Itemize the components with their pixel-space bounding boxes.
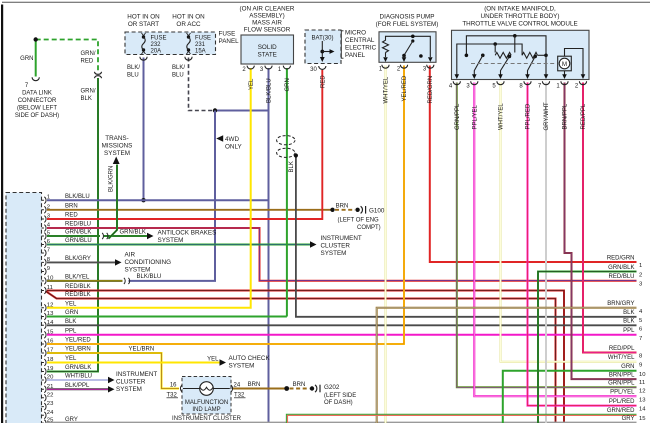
svg-text:RED/BLU: RED/BLU	[608, 274, 634, 280]
svg-text:231: 231	[195, 42, 206, 48]
svg-text:GRN/BLK: GRN/BLK	[65, 365, 91, 371]
svg-text:SYSTEM: SYSTEM	[321, 250, 347, 257]
svg-text:PANEL: PANEL	[345, 52, 366, 59]
svg-text:UNDER THROTTLE BODY): UNDER THROTTLE BODY)	[481, 13, 560, 20]
node splice dot BRN	[330, 208, 334, 212]
svg-text:5: 5	[639, 318, 643, 324]
svg-text:BLK/YEL: BLK/YEL	[65, 275, 90, 281]
arrow to antilock brakes system	[147, 233, 154, 239]
svg-text:YEL/RED: YEL/RED	[402, 75, 408, 101]
svg-text:10: 10	[639, 372, 646, 378]
svg-text:15: 15	[639, 416, 646, 422]
connector cup under fuse 232	[140, 57, 147, 60]
wire RED/BLK pin 11 row to bottom right	[47, 291, 564, 423]
node tap dot	[294, 153, 298, 157]
svg-text:BLK/BLU: BLK/BLU	[137, 274, 162, 280]
svg-text:OR START: OR START	[128, 21, 159, 28]
svg-text:GRN: GRN	[65, 310, 78, 316]
svg-text:GRY: GRY	[65, 417, 78, 423]
label lamp pin 24 T32	[234, 383, 246, 399]
svg-text:4: 4	[449, 84, 453, 90]
svg-text:18: 18	[47, 357, 54, 363]
fuse panel box	[125, 32, 216, 55]
svg-text:PPL: PPL	[623, 328, 635, 334]
svg-text:3: 3	[423, 67, 427, 73]
wire BLK/BLU dashed from fuse 231	[189, 58, 213, 111]
wire BRN pin 2 row	[47, 209, 332, 211]
lamp left bracket pin 16	[180, 385, 182, 392]
wire WHT/YEL module pin 5 to right pin 9	[501, 83, 637, 362]
svg-text:8: 8	[639, 354, 643, 360]
svg-text:SYSTEM: SYSTEM	[116, 386, 142, 393]
arrow pin20 instrument cluster	[108, 377, 115, 383]
svg-text:20A: 20A	[151, 49, 162, 55]
svg-text:RED/PPL: RED/PPL	[609, 346, 635, 352]
svg-text:9: 9	[639, 363, 642, 369]
svg-text:PPL/RED: PPL/RED	[526, 103, 532, 129]
connector cups throttle module pins	[453, 81, 586, 84]
svg-text:MASS AIR: MASS AIR	[252, 20, 282, 27]
ground symbol G202	[310, 385, 320, 393]
wire YEL pin 18 to auto check	[47, 362, 220, 364]
svg-text:BRN: BRN	[336, 203, 349, 209]
svg-text:RED: RED	[321, 75, 327, 88]
wire RED/BLK second row	[46, 291, 556, 423]
fuse F232 symbol	[142, 33, 146, 54]
ground symbol G100	[355, 206, 365, 214]
wire BLK/YEL pin 10	[47, 280, 123, 282]
svg-text:SOLID: SOLID	[258, 44, 277, 51]
svg-text:M: M	[562, 61, 567, 68]
label fuse panel titles	[127, 14, 205, 29]
svg-text:15A: 15A	[195, 49, 206, 55]
wire YEL/BRN pin 17 to malfunction lamp	[47, 353, 179, 389]
svg-text:SYSTEM: SYSTEM	[104, 150, 130, 157]
svg-text:RED/PPL: RED/PPL	[581, 103, 587, 129]
svg-text:11: 11	[47, 285, 53, 291]
svg-text:19: 19	[47, 366, 54, 372]
wire PPL/YEL module pin 3 to right pin 13	[474, 83, 636, 397]
node junction dot 4WD	[213, 108, 217, 112]
right connector wire labels	[607, 255, 635, 421]
svg-text:10: 10	[47, 275, 54, 281]
svg-text:GRN/BLU: GRN/BLU	[65, 238, 92, 244]
svg-text:24: 24	[234, 383, 241, 389]
svg-text:AUTO CHECK: AUTO CHECK	[229, 355, 271, 362]
wire YEL/RED pin 16 to diagnosis pump pin 2	[47, 66, 404, 345]
svg-text:BLK: BLK	[623, 319, 634, 325]
wire WHT/YEL diagnosis pump pin 1 to bottom	[385, 66, 387, 423]
svg-text:GRN: GRN	[20, 56, 33, 62]
svg-text:GRY/WHT: GRY/WHT	[544, 102, 550, 131]
svg-text:SYSTEM: SYSTEM	[158, 237, 184, 244]
svg-text:ANTILOCK BRAKES: ANTILOCK BRAKES	[158, 230, 217, 237]
svg-text:232: 232	[151, 42, 162, 48]
wire BLK/BLU link dot to MAF	[215, 110, 269, 112]
svg-text:2: 2	[242, 67, 246, 73]
svg-text:GRN/BLK: GRN/BLK	[120, 230, 146, 236]
left connector pin stubs	[42, 197, 47, 423]
svg-text:FLOW SENSOR: FLOW SENSOR	[244, 27, 291, 34]
svg-text:CENTRAL: CENTRAL	[345, 37, 375, 44]
wire BLK/GRY pin 8	[47, 261, 115, 263]
svg-text:MALFUNCTION: MALFUNCTION	[185, 400, 228, 406]
svg-text:MICRO: MICRO	[345, 30, 366, 37]
wire RED pin 3 row to BAT(30)	[47, 70, 322, 219]
svg-text:12: 12	[47, 302, 54, 308]
svg-text:FUSE: FUSE	[195, 36, 211, 42]
diagnosis pump box	[379, 32, 436, 63]
connector cup data link pin 7	[32, 77, 39, 80]
malfunction indicator lamp box	[182, 377, 231, 415]
svg-text:YEL/BRN: YEL/BRN	[65, 347, 91, 353]
wire GRN/BLK from bottom edge to right pin 2	[538, 272, 637, 423]
svg-text:RED/GRN: RED/GRN	[607, 255, 635, 261]
svg-text:INSTRUMENT: INSTRUMENT	[116, 371, 157, 378]
right connector pin numbers	[639, 263, 646, 423]
svg-text:(BELOW LEFT: (BELOW LEFT	[17, 106, 57, 112]
svg-text:(LEFT SIDE: (LEFT SIDE	[324, 393, 356, 399]
svg-text:BLK/GRY: BLK/GRY	[65, 256, 91, 262]
left connector wire labels	[65, 194, 92, 423]
wire BRN/GRY from bottom edge to right pin 4	[377, 308, 637, 423]
svg-text:CONNECTOR: CONNECTOR	[18, 98, 57, 104]
node junction dot at data link	[34, 37, 38, 41]
svg-text:16: 16	[47, 339, 54, 345]
wire YEL pin 12 to MAF pin 2	[47, 68, 251, 308]
svg-text:SYSTEM: SYSTEM	[125, 267, 151, 274]
svg-text:BLU: BLU	[127, 73, 139, 79]
wire GRN/BLU pin 6 row	[47, 244, 310, 246]
wire BRN/PPL module pin 1 to right pin 11	[565, 83, 637, 380]
wire GRY/WHT module pin 7 to bottom	[545, 83, 547, 423]
svg-text:WHT/YEL: WHT/YEL	[499, 103, 505, 130]
svg-text:RED/BLK: RED/BLK	[65, 292, 91, 298]
svg-text:17: 17	[47, 348, 54, 354]
svg-text:COMPT): COMPT)	[357, 225, 381, 231]
svg-text:GRN: GRN	[285, 78, 291, 91]
svg-text:STATE: STATE	[258, 52, 277, 59]
label MAF sensor title	[240, 6, 295, 59]
label fuse 232 values	[151, 36, 212, 55]
svg-text:15: 15	[47, 329, 54, 335]
dashed inline connector on MAF GRN wire	[277, 136, 295, 158]
svg-text:GRN/: GRN/	[81, 51, 96, 57]
arrow pin6 instrument cluster	[310, 241, 317, 247]
wire BLK pin 14 full row to right pin 6	[47, 324, 637, 326]
svg-text:2: 2	[47, 204, 50, 210]
svg-text:WHT/YEL: WHT/YEL	[608, 355, 635, 361]
wire BLK/BLU pin 1 row	[47, 199, 269, 201]
svg-text:CLUSTER: CLUSTER	[321, 243, 351, 250]
wire GRY bottom row	[47, 421, 637, 423]
svg-text:23: 23	[47, 401, 54, 407]
wire GRN data link vertical	[35, 40, 37, 77]
svg-text:RED/GRN: RED/GRN	[428, 76, 434, 104]
svg-text:7: 7	[47, 248, 50, 254]
svg-text:1: 1	[556, 84, 560, 90]
svg-text:BLK/BLU: BLK/BLU	[267, 78, 273, 103]
svg-text:14: 14	[639, 407, 646, 413]
wire GRN/BLK from inline connector down to pin 19 row	[47, 78, 98, 372]
svg-text:8: 8	[519, 84, 523, 90]
svg-text:2: 2	[639, 273, 642, 279]
svg-text:WHT/YEL: WHT/YEL	[384, 76, 390, 103]
svg-text:IND LAMP: IND LAMP	[192, 407, 220, 413]
svg-text:1: 1	[639, 263, 642, 269]
svg-text:(FOR FUEL SYSTEM): (FOR FUEL SYSTEM)	[376, 21, 439, 28]
svg-text:BRN: BRN	[65, 204, 78, 210]
wire RED/BLU pin 4 to right pin 3	[47, 228, 637, 281]
wire PPL/RED module pin 8 to right pin 14	[528, 83, 637, 406]
arrow auto check system	[220, 359, 227, 365]
svg-text:(ON AIR CLEANER: (ON AIR CLEANER	[240, 6, 295, 13]
label GRN/RED	[81, 51, 186, 102]
svg-text:G100: G100	[369, 207, 385, 214]
connector cup under fuse 231	[185, 57, 192, 60]
svg-text:HOT IN ON: HOT IN ON	[172, 14, 205, 21]
svg-text:BLK: BLK	[289, 161, 295, 172]
svg-text:RED/BLU: RED/BLU	[65, 222, 91, 228]
wire BRN dashed to G202	[290, 388, 310, 390]
svg-text:PPL/YEL: PPL/YEL	[473, 104, 479, 129]
label transmissions system	[102, 135, 133, 157]
wire GRN pin 13 to MAF pin 1	[47, 316, 287, 318]
throttle valve control module box	[452, 30, 590, 79]
svg-text:GRN/RED: GRN/RED	[607, 408, 635, 414]
svg-text:BRN: BRN	[248, 382, 261, 388]
svg-text:YEL/BRN: YEL/BRN	[129, 347, 155, 353]
wire BLK/GRN branch up to transmissions arrow	[109, 165, 118, 239]
label throttle module title	[462, 6, 577, 28]
wire BLK tap from MAF connector to right pin 5	[296, 156, 637, 317]
svg-text:SYSTEM: SYSTEM	[229, 363, 255, 370]
svg-text:OF DASH): OF DASH)	[324, 400, 353, 406]
page top border line	[2, 1, 650, 3]
left 25-pin connector box (dashed, cut at bottom)	[6, 193, 42, 423]
svg-text:(ON INTAKE MANIFOLD,: (ON INTAKE MANIFOLD,	[484, 6, 556, 13]
svg-text:FUSE: FUSE	[219, 31, 236, 38]
svg-text:ELECTRIC: ELECTRIC	[345, 45, 377, 52]
arrow 4WD ONLY pointing left	[216, 135, 223, 141]
label MAF pin numbers	[242, 67, 579, 90]
micro central panel bracket	[341, 31, 343, 58]
svg-text:PANEL: PANEL	[219, 38, 240, 45]
svg-text:4WD: 4WD	[225, 136, 239, 143]
svg-text:13: 13	[47, 311, 54, 317]
svg-text:12: 12	[639, 388, 646, 394]
svg-text:BLK/PPL: BLK/PPL	[65, 383, 90, 389]
micro central electric panel BAT(30) box	[305, 30, 341, 64]
wire GRN/BLK pin 5 row	[47, 235, 100, 237]
mass air flow sensor box	[241, 35, 294, 64]
connector cups diagnosis pump pins	[382, 65, 434, 68]
svg-text:YEL: YEL	[65, 302, 77, 308]
svg-text:22: 22	[47, 392, 54, 398]
svg-text:INSTRUMENT: INSTRUMENT	[321, 235, 362, 242]
svg-text:BLK/BLU: BLK/BLU	[65, 194, 90, 200]
svg-text:2: 2	[575, 84, 579, 90]
arrow pin21 instrument cluster	[108, 386, 115, 392]
svg-text:ONLY: ONLY	[225, 144, 242, 151]
svg-text:1: 1	[379, 67, 383, 73]
connector cups MAF pins 2 3 1	[247, 66, 290, 69]
svg-text:3: 3	[260, 67, 264, 73]
svg-text:BLK/GRN: BLK/GRN	[109, 166, 115, 192]
wire GRN/PPL module pin 4 to right pin 12	[457, 83, 637, 388]
svg-text:BRN/PPL: BRN/PPL	[563, 103, 569, 129]
arrow up transmissions system	[113, 157, 120, 165]
inline connector symbol pin 5 wire	[102, 233, 108, 239]
svg-text:1: 1	[47, 195, 50, 201]
inline connector symbol pin 10 wire	[124, 278, 130, 284]
wire PPL pin 15 full row to right pin 7	[47, 334, 637, 336]
svg-text:16: 16	[170, 383, 177, 389]
svg-text:WHT/BLU: WHT/BLU	[65, 374, 92, 380]
svg-text:3: 3	[466, 84, 470, 90]
svg-text:PPL: PPL	[65, 329, 77, 335]
label lamp pin 16 T32	[167, 383, 178, 399]
svg-text:1: 1	[278, 67, 282, 73]
wire BLK/BLU from fuse 232	[143, 58, 145, 201]
wire RED/GRN diagnosis pump pin 3 to right pin 1	[430, 66, 637, 263]
malfunction indicator lamp symbol	[183, 382, 230, 396]
svg-text:5: 5	[492, 84, 496, 90]
label rotated YEL MAF	[109, 75, 588, 192]
svg-text:BLK/: BLK/	[127, 65, 140, 71]
svg-text:HOT IN ON: HOT IN ON	[127, 14, 160, 21]
wire WHT/BLU pin 20	[47, 379, 108, 381]
label malfunction ind lamp	[172, 400, 242, 422]
svg-text:AIR: AIR	[125, 252, 136, 259]
throttle module internal circuit	[455, 34, 586, 79]
svg-text:25: 25	[47, 418, 54, 423]
svg-text:OR ACC: OR ACC	[176, 21, 201, 28]
svg-text:BAT(30): BAT(30)	[312, 36, 334, 42]
svg-text:BLK/: BLK/	[172, 65, 185, 71]
wire GRN from bottom edge to right pin 10	[503, 371, 637, 423]
connector cup BAT(30) pin 30	[319, 66, 326, 69]
svg-text:GRN/: GRN/	[81, 89, 96, 95]
node splice dot BRN G202	[284, 386, 289, 391]
svg-text:CLUSTER: CLUSTER	[116, 379, 146, 386]
svg-text:7: 7	[639, 336, 642, 342]
svg-text:2: 2	[397, 67, 401, 73]
svg-text:7: 7	[25, 83, 29, 89]
svg-text:RED: RED	[65, 213, 78, 219]
svg-text:CONDITIONING: CONDITIONING	[125, 259, 172, 266]
wire GRN/RED from bottom edge to right pin 15	[286, 414, 636, 423]
wire BLK/BLU MAF pin3 long vertical to bottom	[268, 68, 270, 423]
svg-text:PPL/YEL: PPL/YEL	[610, 390, 635, 396]
svg-text:YEL: YEL	[207, 357, 219, 363]
arrow pin8 air conditioning	[115, 259, 122, 265]
svg-text:30: 30	[310, 67, 317, 73]
svg-text:BRN: BRN	[293, 382, 306, 388]
svg-text:GRN/BLK: GRN/BLK	[65, 230, 91, 236]
svg-text:G202: G202	[324, 384, 340, 391]
svg-text:INSTRUMENT CLUSTER: INSTRUMENT CLUSTER	[172, 416, 242, 422]
lamp right bracket pin 24	[231, 385, 233, 392]
svg-text:3: 3	[639, 282, 643, 288]
svg-text:BLK: BLK	[623, 310, 634, 316]
svg-text:4: 4	[639, 309, 643, 315]
svg-text:MISSIONS: MISSIONS	[102, 143, 133, 150]
wire GRN/BLK pin 5 after connector to arrow	[104, 235, 148, 237]
node dot fuse232 to pin1 row	[141, 198, 145, 202]
page left border bar	[1, 5, 3, 423]
svg-text:21: 21	[47, 384, 54, 390]
svg-text:BRN/GRY: BRN/GRY	[607, 301, 634, 307]
wire RED/PPL module pin 2 to right pin 8	[583, 83, 637, 353]
svg-text:YEL/RED: YEL/RED	[65, 338, 91, 344]
left connector pin brackets	[44, 197, 46, 423]
svg-text:BLK: BLK	[65, 319, 76, 325]
svg-text:RED: RED	[81, 59, 94, 65]
svg-text:24: 24	[47, 410, 54, 416]
svg-text:TRANS-: TRANS-	[105, 135, 128, 142]
svg-text:GRN: GRN	[621, 364, 634, 370]
svg-text:6: 6	[639, 326, 643, 332]
wire BLK/PPL pin 21	[47, 388, 108, 390]
svg-text:DIAGNOSIS PUMP: DIAGNOSIS PUMP	[380, 14, 435, 21]
wire BLK/BLU down to pin10 row	[129, 111, 216, 281]
svg-text:PPL/RED: PPL/RED	[609, 399, 635, 405]
svg-text:RED/BLK: RED/BLK	[65, 284, 91, 290]
svg-text:YEL: YEL	[65, 356, 77, 362]
svg-text:GRN/BLK: GRN/BLK	[608, 265, 634, 271]
label data link connector	[15, 83, 59, 119]
diagnosis pump internal circuit	[383, 35, 433, 63]
svg-text:20: 20	[47, 375, 54, 381]
label diagnosis pump title	[376, 14, 439, 29]
BAT(30) internal wiring	[320, 41, 335, 62]
svg-text:GRN/PPL: GRN/PPL	[455, 103, 461, 130]
svg-text:13: 13	[639, 397, 646, 403]
svg-text:BLU: BLU	[172, 73, 184, 79]
svg-text:THROTTLE VALVE CONTROL MODULE: THROTTLE VALVE CONTROL MODULE	[462, 21, 577, 28]
svg-text:SIDE OF DASH): SIDE OF DASH)	[15, 113, 59, 119]
svg-text:14: 14	[47, 320, 54, 326]
svg-text:FUSE: FUSE	[151, 36, 167, 42]
wire GRN/RED dashed	[36, 40, 98, 71]
svg-text:11: 11	[639, 380, 645, 386]
svg-text:BLK: BLK	[81, 96, 92, 102]
svg-text:(LEFT OF ENG: (LEFT OF ENG	[338, 218, 380, 224]
svg-text:GRY: GRY	[622, 416, 635, 422]
left connector pin numbers	[47, 195, 54, 423]
inline connector on green wire	[94, 72, 101, 78]
wire BRN malfunction lamp to splice	[232, 388, 286, 390]
svg-text:YEL: YEL	[249, 78, 255, 90]
svg-text:BRN/PPL: BRN/PPL	[609, 373, 635, 379]
svg-text:7: 7	[538, 84, 542, 90]
svg-text:9: 9	[47, 266, 50, 272]
svg-text:GRN/PPL: GRN/PPL	[608, 381, 635, 387]
svg-text:DATA LINK: DATA LINK	[22, 91, 52, 97]
svg-text:ASSEMBLY): ASSEMBLY)	[249, 13, 285, 20]
wire BRN dashed to G100	[335, 209, 355, 211]
fuse F231 symbol	[187, 33, 191, 54]
